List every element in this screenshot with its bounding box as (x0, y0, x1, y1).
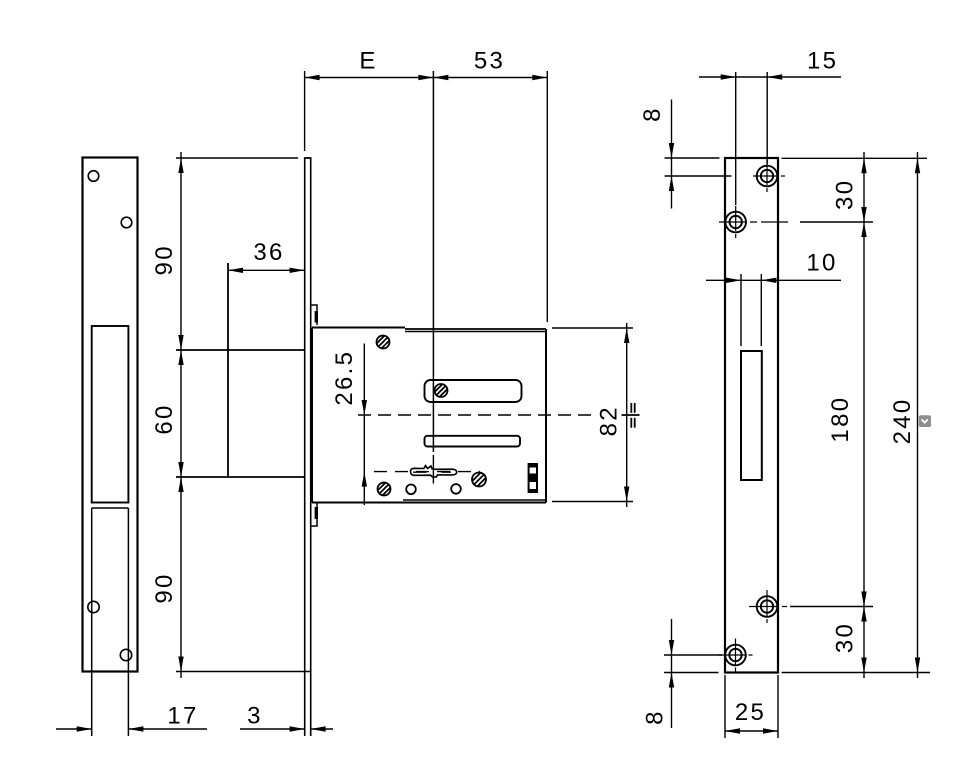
strike plate hole bottom-right (120, 649, 131, 660)
svg-text:240: 240 (889, 397, 916, 444)
dimension E and 53 (305, 71, 548, 452)
faceplate side view right edge (310, 158, 312, 736)
svg-text:90: 90 (151, 572, 178, 603)
extension lines right chain (782, 158, 931, 672)
dimension 25 (725, 675, 778, 738)
screw hole B1 (725, 645, 746, 666)
strike plate cutout upper (92, 326, 129, 503)
svg-text:53: 53 (474, 48, 505, 75)
hole C1 (406, 485, 416, 495)
strike plate hole top-left (88, 171, 99, 182)
svg-text:36: 36 (253, 239, 284, 266)
strike plate outline (83, 158, 138, 672)
lock case left edge side view (227, 263, 229, 477)
dimension chain 90/60/90 (180, 152, 182, 678)
svg-text:180: 180 (827, 396, 854, 443)
strike plate cutout lower left edge / extension line (91, 508, 93, 736)
dimension 240 line (917, 152, 919, 678)
svg-text:17: 17 (167, 703, 198, 730)
screw S3 (472, 473, 486, 487)
screw hole T1 (757, 166, 778, 187)
extension line bottom (176, 671, 312, 673)
svg-text:E: E (359, 48, 377, 75)
dimension 8 top (671, 100, 673, 209)
UI expand icon (919, 415, 931, 427)
svg-text:82: 82 (595, 405, 622, 436)
svg-text:25: 25 (735, 699, 766, 726)
svg-text:15: 15 (807, 48, 838, 75)
svg-text:10: 10 (806, 250, 837, 277)
svg-text:8: 8 (642, 709, 669, 725)
svg-text:8: 8 (639, 106, 666, 122)
faceplate front view (725, 158, 778, 673)
svg-text:30: 30 (832, 179, 859, 210)
svg-text:60: 60 (151, 403, 178, 434)
dimension 30/180/30 line (863, 152, 865, 678)
symmetry mark (622, 403, 640, 428)
extension line top (90) (176, 157, 298, 159)
top bolt side view (311, 305, 317, 325)
tumbler stack component (529, 464, 537, 492)
strike plate hole upper-right (121, 217, 132, 228)
dimension 26.5 (363, 344, 365, 506)
key center line (374, 471, 480, 473)
svg-text:30: 30 (831, 622, 858, 653)
svg-text:26.5: 26.5 (331, 350, 358, 406)
screw hole T2 (725, 212, 746, 233)
dimension 10 (706, 274, 841, 346)
key symbol (411, 466, 457, 477)
faceplate side view top cap (304, 157, 312, 159)
lock body front view (312, 327, 405, 329)
screw S1 (377, 336, 390, 349)
strike plate cutout lower top edge (92, 507, 129, 509)
strike plate hole lower-left (88, 601, 99, 612)
lock case bottom edge side view (176, 476, 305, 478)
strike plate cutout lower right edge / extension line (127, 508, 129, 736)
dimension 8 bottom (671, 619, 673, 728)
dimension 36 (228, 269, 305, 271)
key cross vertical (432, 455, 434, 484)
hole C2 (451, 484, 461, 494)
center line horizontal (dashed) (358, 414, 592, 416)
svg-text:3: 3 (247, 703, 263, 730)
lock case top edge side view (176, 349, 305, 351)
dimension 82 (552, 327, 633, 329)
screw S2 (435, 384, 448, 397)
faceplate front slot (741, 351, 762, 480)
dimension 3 (240, 728, 333, 730)
dimension 15 (699, 72, 841, 205)
faceplate side view left edge (304, 158, 306, 736)
slot lower (425, 436, 521, 447)
dimension 17 (56, 728, 207, 730)
screw S4 (378, 483, 391, 496)
screw hole B2 (757, 596, 778, 617)
bottom bolt side view (311, 503, 317, 526)
svg-text:90: 90 (151, 244, 178, 275)
slot upper (bolt slot) (425, 380, 522, 402)
